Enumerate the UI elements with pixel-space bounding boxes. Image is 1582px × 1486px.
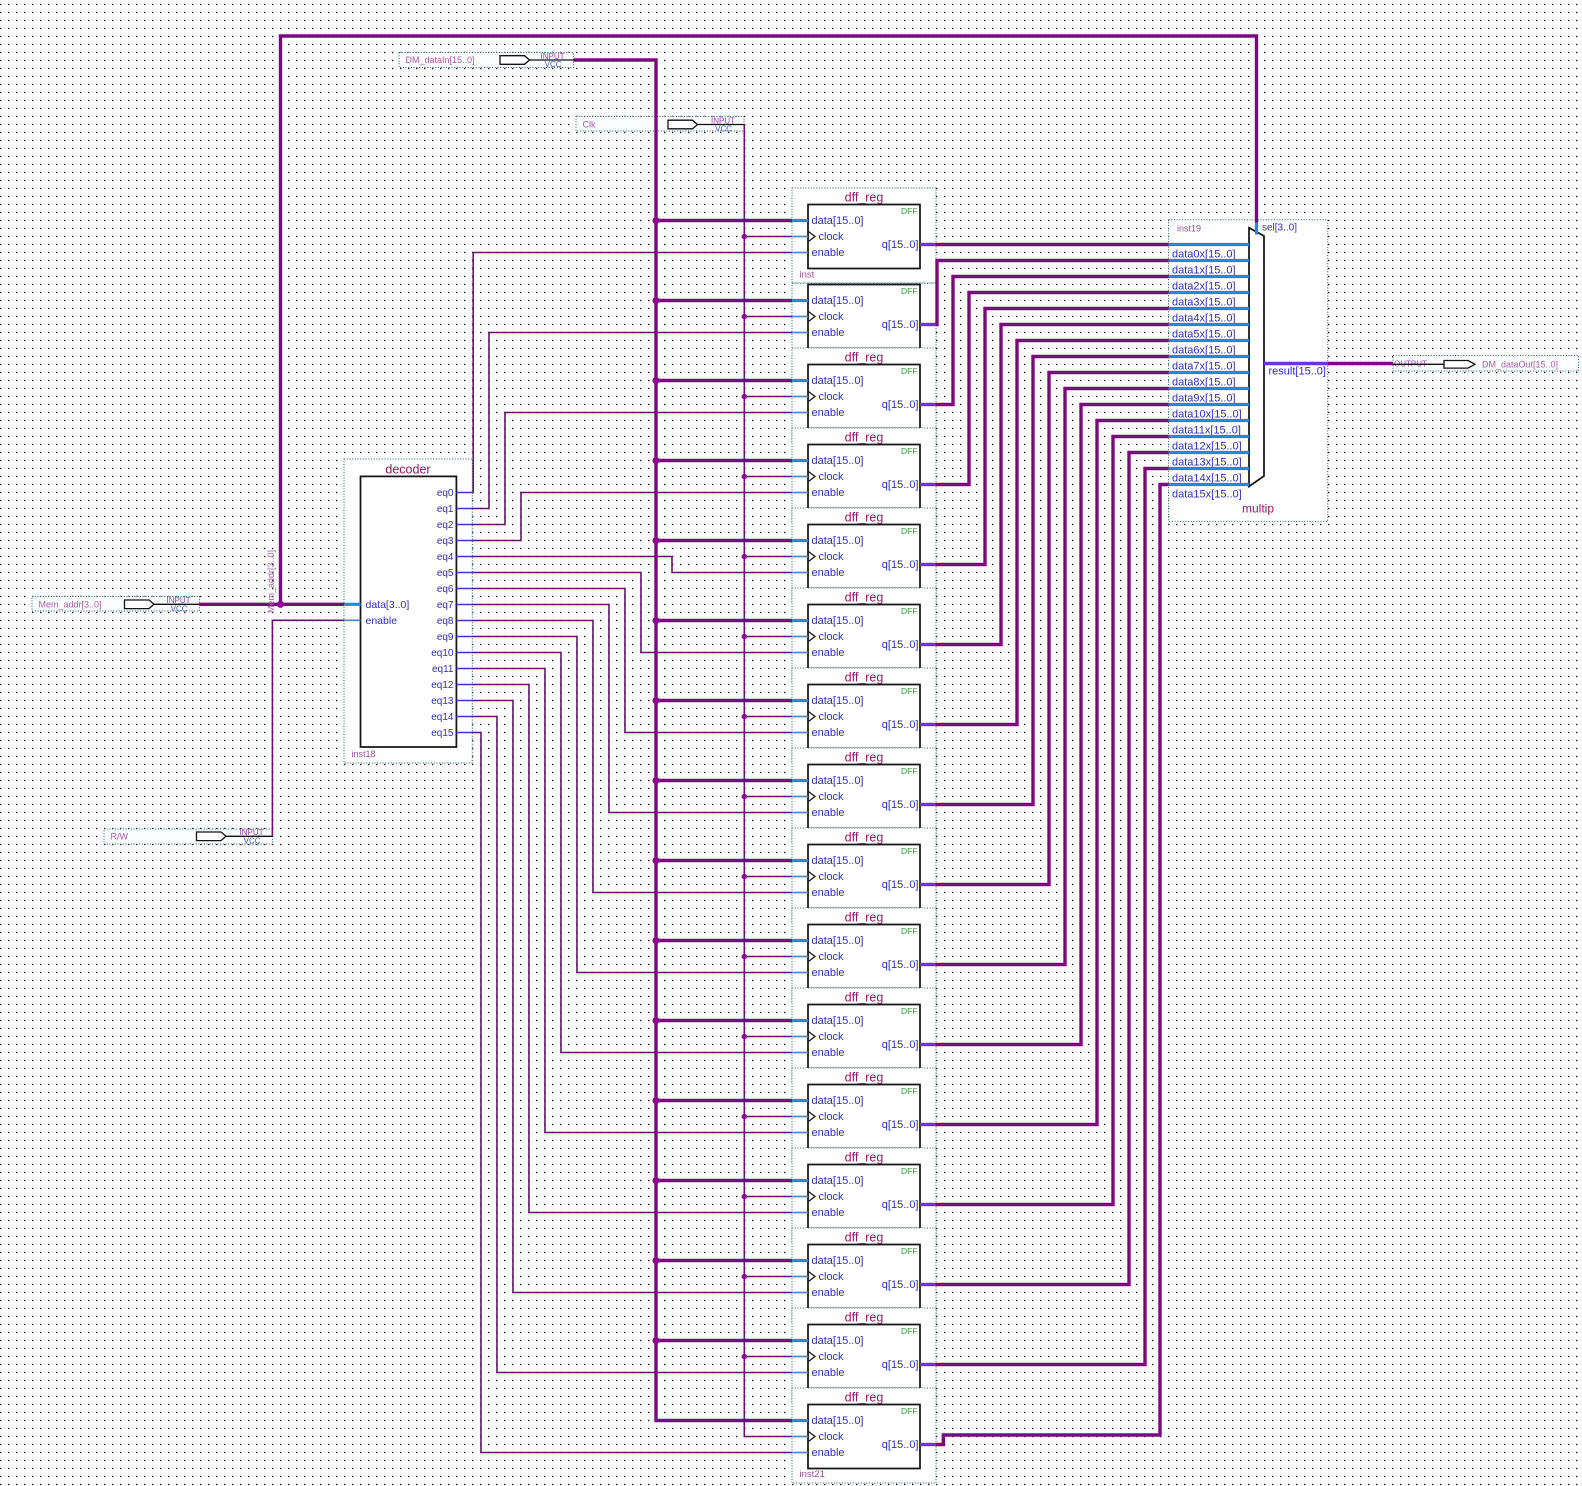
- input pin Mem_addr[3..0]: [32, 596, 200, 613]
- svg-text:DFF: DFF: [901, 366, 918, 376]
- svg-text:R/W: R/W: [111, 832, 129, 842]
- svg-text:VCC: VCC: [545, 60, 562, 69]
- svg-text:data14x[15..0]: data14x[15..0]: [1172, 473, 1242, 485]
- dff_reg register 2: [792, 283, 936, 378]
- svg-text:dff_reg: dff_reg: [845, 911, 884, 925]
- svg-text:eq4: eq4: [437, 552, 454, 563]
- svg-text:q[15..0]: q[15..0]: [882, 799, 919, 811]
- svg-text:q[15..0]: q[15..0]: [882, 959, 919, 971]
- svg-text:data12x[15..0]: data12x[15..0]: [1172, 441, 1242, 453]
- svg-text:enable: enable: [812, 487, 845, 499]
- wire q4 to mux data3x: [936, 293, 1169, 485]
- wire DM_dataIn tap to dff 11 data: [652, 1017, 792, 1024]
- svg-text:data[15..0]: data[15..0]: [812, 375, 864, 387]
- svg-text:eq15: eq15: [431, 728, 454, 739]
- wire Clk tap to dff 12 clock: [742, 1114, 792, 1119]
- wire Clk tap to dff 10 clock: [742, 954, 792, 959]
- svg-text:data5x[15..0]: data5x[15..0]: [1172, 329, 1236, 341]
- svg-text:clock: clock: [819, 711, 845, 723]
- wire eq14 to dff 15 enable: [472, 717, 792, 1373]
- wire Clk tap to dff 3 clock: [742, 394, 792, 399]
- svg-text:q[15..0]: q[15..0]: [882, 1119, 919, 1131]
- svg-text:DFF: DFF: [901, 766, 918, 776]
- wire q3 to mux data2x: [936, 277, 1169, 405]
- svg-text:DFF: DFF: [901, 686, 918, 696]
- svg-text:DFF: DFF: [901, 206, 918, 216]
- svg-text:DM_dataOut[15..0]: DM_dataOut[15..0]: [1482, 360, 1558, 370]
- svg-text:q[15..0]: q[15..0]: [882, 319, 919, 331]
- decoder inst18: [344, 459, 472, 763]
- svg-text:data13x[15..0]: data13x[15..0]: [1172, 457, 1242, 469]
- svg-text:DFF: DFF: [901, 846, 918, 856]
- wire q14 to mux data13x: [936, 453, 1169, 1285]
- wire Clk tap to dff 15 clock: [742, 1354, 792, 1359]
- wire eq13 to dff 14 enable: [472, 701, 792, 1293]
- svg-text:q[15..0]: q[15..0]: [882, 479, 919, 491]
- svg-text:eq6: eq6: [437, 584, 454, 595]
- svg-text:data6x[15..0]: data6x[15..0]: [1172, 345, 1236, 357]
- wire eq2 to dff 3 enable: [472, 413, 792, 525]
- svg-text:data[15..0]: data[15..0]: [812, 295, 864, 307]
- wire DM_dataIn tap to dff 9 data: [652, 857, 792, 864]
- svg-text:data[15..0]: data[15..0]: [812, 935, 864, 947]
- svg-text:data2x[15..0]: data2x[15..0]: [1172, 281, 1236, 293]
- svg-text:dff_reg: dff_reg: [845, 671, 884, 685]
- svg-text:clock: clock: [819, 231, 845, 243]
- svg-text:data0x[15..0]: data0x[15..0]: [1172, 249, 1236, 261]
- wire eq15 to dff 16 enable: [472, 733, 792, 1453]
- svg-text:inst21: inst21: [800, 1469, 825, 1480]
- wire q5 to mux data4x: [936, 309, 1169, 565]
- dff_reg register 14: [792, 1228, 936, 1323]
- svg-text:data[15..0]: data[15..0]: [812, 775, 864, 787]
- wire eq7 to dff 8 enable: [472, 605, 792, 813]
- svg-text:Clk: Clk: [583, 120, 596, 130]
- wire eq4 to dff 5 enable: [472, 557, 792, 573]
- wire DM_dataIn tap to dff 15 data: [652, 1337, 792, 1344]
- dff_reg register 9: [792, 828, 936, 923]
- svg-text:data[15..0]: data[15..0]: [812, 455, 864, 467]
- svg-text:VCC: VCC: [715, 125, 732, 134]
- wire DM_dataIn tap to dff 10 data: [652, 937, 792, 944]
- dff_reg register 8: [792, 748, 936, 843]
- wire DM_dataIn tap to dff 14 data: [652, 1257, 792, 1264]
- dff_reg register 15: [792, 1308, 936, 1403]
- svg-text:clock: clock: [819, 1431, 845, 1443]
- svg-text:eq8: eq8: [437, 616, 454, 627]
- svg-text:eq5: eq5: [437, 568, 454, 579]
- svg-text:enable: enable: [812, 1287, 845, 1299]
- wire Clk tap to dff 6 clock: [742, 634, 792, 639]
- svg-text:inst19: inst19: [1177, 224, 1201, 234]
- wire q16 to mux data15x: [936, 485, 1169, 1445]
- svg-text:DFF: DFF: [901, 926, 918, 936]
- svg-text:clock: clock: [819, 1111, 845, 1123]
- svg-text:DFF: DFF: [901, 1006, 918, 1016]
- svg-text:eq9: eq9: [437, 632, 454, 643]
- wire eq6 to dff 7 enable: [472, 589, 792, 733]
- svg-text:clock: clock: [819, 391, 845, 403]
- dff_reg register 10: [792, 908, 936, 1003]
- svg-text:VCC: VCC: [171, 605, 188, 614]
- wire q15 to mux data14x: [936, 469, 1169, 1365]
- wire DM_dataIn tap to dff 1 data: [652, 217, 792, 224]
- svg-text:clock: clock: [819, 1271, 845, 1283]
- svg-text:DFF: DFF: [901, 606, 918, 616]
- input pin DM_dataIn[15..0]: [399, 52, 574, 69]
- svg-text:enable: enable: [812, 1207, 845, 1219]
- dff_reg register 11: [792, 988, 936, 1083]
- svg-text:data[15..0]: data[15..0]: [812, 535, 864, 547]
- svg-text:dff_reg: dff_reg: [845, 591, 884, 605]
- svg-text:data[15..0]: data[15..0]: [812, 615, 864, 627]
- svg-text:DFF: DFF: [901, 1166, 918, 1176]
- svg-text:VCC: VCC: [244, 837, 261, 846]
- svg-text:data[15..0]: data[15..0]: [812, 1095, 864, 1107]
- wire q2 to mux data1x: [936, 261, 1169, 325]
- svg-text:enable: enable: [812, 727, 845, 739]
- svg-text:q[15..0]: q[15..0]: [882, 239, 919, 251]
- svg-text:dff_reg: dff_reg: [845, 991, 884, 1005]
- dff_reg register 4: [792, 428, 936, 523]
- svg-text:DFF: DFF: [901, 1246, 918, 1256]
- svg-text:data10x[15..0]: data10x[15..0]: [1172, 409, 1242, 421]
- wire q9 to mux data8x: [936, 373, 1169, 885]
- wire Clk tap to dff 1 clock: [742, 234, 792, 239]
- wire eq8 to dff 9 enable: [472, 621, 792, 893]
- svg-text:clock: clock: [819, 1191, 845, 1203]
- wire Clk tap to dff 8 clock: [742, 794, 792, 799]
- svg-text:result[15..0]: result[15..0]: [1269, 366, 1326, 378]
- wire DM_dataIn tap to dff 12 data: [652, 1097, 792, 1104]
- svg-text:eq3: eq3: [437, 536, 454, 547]
- wire q6 to mux data5x: [936, 325, 1169, 645]
- svg-text:data[15..0]: data[15..0]: [812, 1015, 864, 1027]
- wire Clk tap to dff 14 clock: [742, 1274, 792, 1279]
- wire DM_dataIn bus trunk: [574, 60, 793, 1421]
- dff_reg register 1 (inst): [792, 188, 936, 283]
- svg-text:data[15..0]: data[15..0]: [812, 1255, 864, 1267]
- svg-text:clock: clock: [819, 871, 845, 883]
- wire DM_dataIn tap to dff 7 data: [652, 697, 792, 704]
- wire Clk trunk: [744, 125, 792, 1437]
- svg-text:enable: enable: [812, 407, 845, 419]
- wire Clk tap to dff 4 clock: [742, 474, 792, 479]
- svg-text:data11x[15..0]: data11x[15..0]: [1172, 425, 1241, 437]
- svg-text:data[15..0]: data[15..0]: [812, 215, 864, 227]
- svg-text:data9x[15..0]: data9x[15..0]: [1172, 393, 1236, 405]
- wire eq11 to dff 12 enable: [472, 669, 792, 1133]
- svg-text:q[15..0]: q[15..0]: [882, 639, 919, 651]
- svg-text:enable: enable: [812, 1047, 845, 1059]
- svg-text:data7x[15..0]: data7x[15..0]: [1172, 361, 1236, 373]
- svg-text:clock: clock: [819, 551, 845, 563]
- svg-text:eq14: eq14: [431, 712, 454, 723]
- svg-text:clock: clock: [819, 951, 845, 963]
- wire DM_dataIn tap to dff 13 data: [652, 1177, 792, 1184]
- svg-text:clock: clock: [819, 471, 845, 483]
- wire eq3 to dff 4 enable: [472, 493, 792, 541]
- svg-text:dff_reg: dff_reg: [845, 431, 884, 445]
- wire eq10 to dff 11 enable: [472, 653, 792, 1053]
- dff_reg register 3: [792, 348, 936, 443]
- svg-text:DFF: DFF: [901, 1406, 918, 1416]
- svg-text:q[15..0]: q[15..0]: [882, 1439, 919, 1451]
- wire Clk tap to dff 11 clock: [742, 1034, 792, 1039]
- svg-text:clock: clock: [819, 1031, 845, 1043]
- svg-text:decoder: decoder: [385, 463, 430, 477]
- wire eq9 to dff 10 enable: [472, 637, 792, 973]
- wire q7 to mux data6x: [936, 341, 1169, 725]
- svg-text:data[15..0]: data[15..0]: [812, 1175, 864, 1187]
- svg-text:eq7: eq7: [437, 600, 454, 611]
- wire Clk tap to dff 9 clock: [742, 874, 792, 879]
- svg-text:enable: enable: [812, 1447, 845, 1459]
- dff_reg register 16 (inst21): [792, 1388, 936, 1483]
- svg-text:data[3..0]: data[3..0]: [366, 599, 410, 611]
- svg-text:dff_reg: dff_reg: [845, 1071, 884, 1085]
- svg-text:eq10: eq10: [431, 648, 454, 659]
- svg-text:dff_reg: dff_reg: [845, 751, 884, 765]
- wire DM_dataIn tap to dff 5 data: [652, 537, 792, 544]
- svg-text:data3x[15..0]: data3x[15..0]: [1172, 297, 1236, 309]
- svg-text:dff_reg: dff_reg: [845, 1311, 884, 1325]
- svg-text:dff_reg: dff_reg: [845, 1231, 884, 1245]
- svg-text:DFF: DFF: [901, 446, 918, 456]
- svg-text:q[15..0]: q[15..0]: [882, 559, 919, 571]
- svg-text:clock: clock: [819, 631, 845, 643]
- svg-text:eq1: eq1: [437, 504, 454, 515]
- svg-text:dff_reg: dff_reg: [845, 831, 884, 845]
- wire eq1 to dff 2 enable: [472, 333, 792, 509]
- svg-text:inst: inst: [800, 270, 815, 281]
- svg-text:q[15..0]: q[15..0]: [882, 1199, 919, 1211]
- net label Mem_addr[3..0] (vertical): [266, 550, 276, 613]
- svg-text:enable: enable: [366, 615, 398, 627]
- svg-text:q[15..0]: q[15..0]: [882, 1039, 919, 1051]
- wire Clk tap to dff 7 clock: [742, 714, 792, 719]
- svg-text:clock: clock: [819, 791, 845, 803]
- svg-text:DFF: DFF: [901, 286, 918, 296]
- wire q11 to mux data10x: [936, 405, 1169, 1045]
- wire eq0 to dff 1 enable: [472, 253, 792, 493]
- wire q10 to mux data9x: [936, 389, 1169, 965]
- svg-text:inst18: inst18: [352, 749, 376, 759]
- svg-text:clock: clock: [819, 311, 845, 323]
- wire Clk tap to dff 5 clock: [742, 554, 792, 559]
- wire Clk tap to dff 13 clock: [742, 1194, 792, 1199]
- svg-text:eq0: eq0: [437, 488, 454, 499]
- svg-text:enable: enable: [812, 887, 845, 899]
- output pin DM_dataOut[15..0]: [1393, 356, 1579, 372]
- svg-text:enable: enable: [812, 807, 845, 819]
- svg-text:data8x[15..0]: data8x[15..0]: [1172, 377, 1236, 389]
- svg-text:sel[3..0]: sel[3..0]: [1262, 223, 1297, 234]
- svg-text:enable: enable: [812, 1367, 845, 1379]
- input pin Clk: [576, 116, 744, 133]
- svg-text:enable: enable: [812, 567, 845, 579]
- dff_reg register 13: [792, 1148, 936, 1243]
- svg-text:enable: enable: [812, 967, 845, 979]
- svg-text:data15x[15..0]: data15x[15..0]: [1172, 489, 1242, 501]
- dff_reg register 6: [792, 588, 936, 683]
- svg-text:eq11: eq11: [432, 664, 454, 675]
- wire eq12 to dff 13 enable: [472, 685, 792, 1213]
- svg-text:dff_reg: dff_reg: [845, 1391, 884, 1405]
- svg-text:data[15..0]: data[15..0]: [812, 1415, 864, 1427]
- wire DM_dataIn tap to dff 8 data: [652, 777, 792, 784]
- mux multip inst19: [1169, 220, 1328, 522]
- wire Mem_addr bus : pin to decoder data and up to mux sel: [199, 36, 1256, 608]
- dff_reg register 12: [792, 1068, 936, 1163]
- svg-text:dff_reg: dff_reg: [845, 511, 884, 525]
- wire DM_dataIn tap to dff 4 data: [652, 457, 792, 464]
- input pin R/W: [104, 828, 273, 845]
- svg-text:DM_dataIn[15..0]: DM_dataIn[15..0]: [406, 55, 475, 65]
- svg-text:dff_reg: dff_reg: [845, 351, 884, 365]
- svg-text:q[15..0]: q[15..0]: [882, 719, 919, 731]
- wire DM_dataIn tap to dff 3 data: [652, 377, 792, 384]
- svg-text:dff_reg: dff_reg: [845, 1151, 884, 1165]
- svg-text:eq2: eq2: [437, 520, 454, 531]
- svg-text:q[15..0]: q[15..0]: [882, 1359, 919, 1371]
- wire result to DM_dataOut output pin: [1328, 362, 1393, 365]
- svg-text:DFF: DFF: [901, 526, 918, 536]
- svg-text:eq12: eq12: [431, 680, 454, 691]
- wire eq5 to dff 6 enable: [472, 573, 792, 653]
- svg-text:enable: enable: [812, 1127, 845, 1139]
- svg-text:q[15..0]: q[15..0]: [882, 1279, 919, 1291]
- wire R/W to decoder enable: [272, 620, 344, 836]
- svg-text:DFF: DFF: [901, 1326, 918, 1336]
- svg-text:eq13: eq13: [431, 696, 454, 707]
- wire q8 to mux data7x: [936, 357, 1169, 805]
- wire Clk tap to dff 2 clock: [742, 314, 792, 319]
- wire q12 to mux data11x: [936, 421, 1169, 1125]
- svg-text:data[15..0]: data[15..0]: [812, 855, 864, 867]
- svg-text:enable: enable: [812, 647, 845, 659]
- svg-text:enable: enable: [812, 327, 845, 339]
- svg-text:q[15..0]: q[15..0]: [882, 399, 919, 411]
- dff_reg register 5: [792, 508, 936, 603]
- svg-text:q[15..0]: q[15..0]: [882, 879, 919, 891]
- dff_reg register 7: [792, 668, 936, 763]
- wire DM_dataIn tap to dff 2 data: [652, 297, 792, 304]
- svg-text:clock: clock: [819, 1351, 845, 1363]
- wire q1 to mux data0x: [936, 243, 1169, 246]
- svg-text:Mem_addr[3..0]: Mem_addr[3..0]: [39, 600, 102, 610]
- svg-text:data4x[15..0]: data4x[15..0]: [1172, 313, 1236, 325]
- svg-text:dff_reg: dff_reg: [845, 191, 884, 205]
- svg-text:Mem_addr[3..0]: Mem_addr[3..0]: [266, 550, 276, 613]
- svg-text:data[15..0]: data[15..0]: [812, 695, 864, 707]
- svg-text:DFF: DFF: [901, 1086, 918, 1096]
- svg-text:multip: multip: [1242, 502, 1274, 516]
- svg-text:enable: enable: [812, 247, 845, 259]
- svg-text:data1x[15..0]: data1x[15..0]: [1172, 265, 1236, 277]
- wire q13 to mux data12x: [936, 437, 1169, 1205]
- wire DM_dataIn tap to dff 6 data: [652, 617, 792, 624]
- svg-text:data[15..0]: data[15..0]: [812, 1335, 864, 1347]
